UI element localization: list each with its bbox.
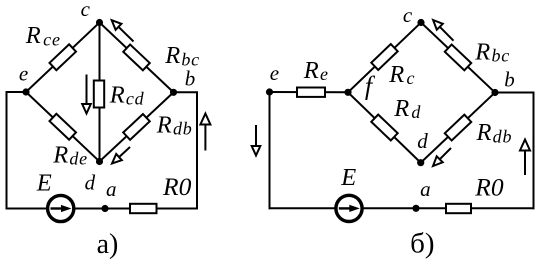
wire e-c (left circuit) xyxy=(26,23,100,93)
current arrow toward c (right) xyxy=(440,27,454,41)
node a xyxy=(101,205,108,212)
svg-text:Rd: Rd xyxy=(393,95,421,122)
svg-text:Re: Re xyxy=(303,57,329,84)
resistor Rde xyxy=(50,114,76,140)
svg-text:Rcd: Rcd xyxy=(109,81,145,108)
svg-text:e: e xyxy=(270,61,279,85)
source E (right) xyxy=(336,195,362,221)
resistor Rd xyxy=(371,115,397,141)
node b (right) xyxy=(491,89,498,96)
svg-text:Rce: Rce xyxy=(25,22,61,49)
current arrow down beside left rail (right) xyxy=(255,125,257,146)
wire e to left rail xyxy=(7,92,27,209)
svg-text:Rbc: Rbc xyxy=(164,42,200,69)
current arrow toward c xyxy=(119,27,134,42)
svg-text:Rdb: Rdb xyxy=(476,119,513,146)
node b xyxy=(170,89,177,96)
wire d-b (right) xyxy=(421,93,495,163)
svg-text:E: E xyxy=(340,164,356,191)
wire bottom left xyxy=(7,208,198,210)
resistor R0 (left) xyxy=(130,204,157,213)
svg-text:b: b xyxy=(504,68,515,92)
svg-text:d: d xyxy=(85,171,96,195)
current arrow toward d xyxy=(119,147,130,157)
wire f-d xyxy=(348,92,421,162)
svg-text:f: f xyxy=(365,72,376,101)
wire d-b xyxy=(100,92,174,161)
wire b to right rail (right circuit) xyxy=(495,93,534,209)
wire e-Re-f (right circuit) xyxy=(270,91,349,93)
wire c-d vertical xyxy=(99,23,101,162)
wire e-d xyxy=(26,92,100,162)
svg-text:d: d xyxy=(417,129,428,153)
svg-text:a: a xyxy=(106,177,117,201)
svg-text:c: c xyxy=(403,3,413,27)
left rail (right circuit) xyxy=(269,92,271,208)
current arrow up right rail (right circuit) xyxy=(524,151,526,176)
node e xyxy=(22,88,29,95)
node c (right) xyxy=(417,19,424,26)
svg-text:Rdb: Rdb xyxy=(156,111,193,138)
node f xyxy=(344,89,351,96)
svg-text:R0: R0 xyxy=(474,172,504,201)
resistor R0 (right) xyxy=(446,204,471,213)
wire b to right rail xyxy=(174,92,198,208)
bottom wire (right circuit) xyxy=(270,207,534,209)
svg-text:б): б) xyxy=(410,228,434,260)
node d (right) xyxy=(417,159,424,166)
wire f-c xyxy=(348,23,421,93)
source E (left) xyxy=(48,195,74,221)
node e (right) xyxy=(266,88,273,95)
node c xyxy=(96,19,103,26)
wire c-b (right) xyxy=(421,23,495,93)
current arrow toward d (right) xyxy=(440,148,451,159)
wire c-b xyxy=(100,23,174,93)
resistor Rdb (right) xyxy=(445,115,471,141)
resistor Rcd xyxy=(94,81,104,108)
node d xyxy=(96,158,103,165)
resistor Re xyxy=(297,88,325,97)
svg-text:Rbc: Rbc xyxy=(474,39,510,66)
current arrow down beside Rcd xyxy=(86,75,88,105)
svg-text:а): а) xyxy=(97,229,119,260)
svg-text:Rc: Rc xyxy=(388,61,415,88)
svg-text:a: a xyxy=(420,177,431,201)
svg-text:c: c xyxy=(81,0,91,21)
svg-text:R0: R0 xyxy=(162,172,192,201)
resistor Rce xyxy=(50,44,76,70)
current arrow up right rail (left circuit) xyxy=(204,125,206,151)
resistor Rbc (left) xyxy=(123,45,150,71)
svg-text:b: b xyxy=(185,67,196,91)
svg-text:E: E xyxy=(36,170,52,197)
resistor Rdb (left) xyxy=(123,114,150,140)
node a (right) xyxy=(412,205,419,212)
svg-text:e: e xyxy=(19,62,28,86)
resistor Rbc (right) xyxy=(445,44,471,70)
resistor Rc xyxy=(371,44,397,70)
